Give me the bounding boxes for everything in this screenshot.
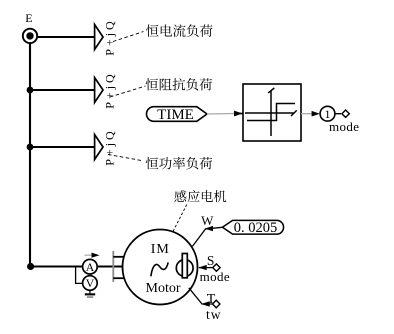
junction dot 2 bbox=[27, 87, 34, 94]
svg-text:W: W bbox=[201, 213, 214, 228]
wire branch 2 bbox=[30, 89, 95, 91]
svg-text:P+jQ: P+jQ bbox=[103, 128, 117, 165]
leader line load 3 bbox=[108, 155, 142, 161]
label 感应电机 bbox=[174, 190, 226, 202]
induction motor circle bbox=[123, 230, 198, 305]
signal wire comparator to channel 1 bbox=[301, 113, 313, 115]
channel circle 1 bbox=[320, 106, 335, 121]
arrowhead into channel bbox=[312, 111, 320, 117]
ammeter A bbox=[83, 259, 98, 274]
svg-text:Motor: Motor bbox=[146, 281, 181, 296]
motor sine symbol bbox=[151, 262, 168, 276]
constant tag 0.0205 bbox=[222, 220, 283, 234]
terminal diamond S mode bbox=[213, 264, 220, 271]
wire bottom horizontal bbox=[30, 265, 83, 267]
arrowhead into comparator bbox=[234, 111, 243, 117]
arrowhead T bbox=[201, 301, 210, 306]
load triangle P+jQ #1 bbox=[95, 25, 103, 50]
label 恒功率负荷 bbox=[146, 157, 212, 170]
comparator step characteristic bbox=[247, 104, 295, 121]
junction dot 3 bbox=[27, 144, 34, 151]
wire W diagonal bbox=[192, 227, 222, 246]
svg-text:tw: tw bbox=[206, 307, 222, 322]
svg-text:TIME: TIME bbox=[157, 107, 194, 123]
voltmeter V bbox=[83, 276, 98, 291]
comparator x-axis bbox=[245, 112, 294, 114]
load triangle P+jQ #3 bbox=[95, 135, 103, 160]
label 恒电流负荷 bbox=[146, 24, 212, 37]
motor stub bottom bbox=[113, 277, 124, 279]
wire to mode terminal bbox=[335, 113, 341, 115]
comparator y-axis bbox=[270, 91, 272, 136]
svg-text:A: A bbox=[86, 260, 95, 274]
leader line load 1 bbox=[113, 32, 144, 42]
wire bus vertical bbox=[29, 43, 31, 267]
wire branch 1 bbox=[37, 36, 94, 38]
signal wire TIME to comparator bbox=[207, 113, 235, 116]
junction corner dot bbox=[27, 263, 34, 270]
leader line load 2 bbox=[110, 86, 146, 97]
label 恒阻抗负荷 bbox=[146, 78, 212, 91]
arrowhead W bbox=[205, 226, 214, 231]
svg-text:P+jQ: P+jQ bbox=[103, 18, 117, 55]
motor stub top bbox=[113, 256, 124, 258]
node E source terminal bbox=[23, 29, 37, 43]
motor cage symbol bbox=[176, 260, 193, 277]
svg-text:mode: mode bbox=[200, 269, 230, 284]
svg-text:P+jQ: P+jQ bbox=[103, 71, 117, 108]
comparator block U1 bbox=[243, 84, 301, 141]
leader line motor label bbox=[173, 205, 187, 232]
wire branch 3 bbox=[30, 146, 95, 148]
svg-text:mode: mode bbox=[329, 119, 359, 134]
wire S bbox=[199, 267, 212, 269]
wire T diagonal bbox=[189, 288, 212, 304]
svg-text:V: V bbox=[86, 276, 95, 290]
ground symbol bbox=[89, 290, 91, 293]
svg-text:S: S bbox=[207, 253, 215, 268]
svg-text:0. 0205: 0. 0205 bbox=[234, 220, 278, 236]
svg-text:E: E bbox=[25, 11, 32, 25]
terminal diamond tw bbox=[213, 300, 220, 307]
terminal diamond mode bbox=[342, 110, 349, 117]
load triangle P+jQ #2 bbox=[95, 78, 103, 103]
svg-text:IM: IM bbox=[151, 242, 170, 257]
motor stator bar bbox=[112, 251, 114, 282]
arrowhead S bbox=[198, 265, 207, 270]
voltmeter tap wire bbox=[76, 267, 83, 284]
ammeter direction arrow bbox=[85, 254, 94, 256]
TIME source block bbox=[147, 107, 207, 122]
